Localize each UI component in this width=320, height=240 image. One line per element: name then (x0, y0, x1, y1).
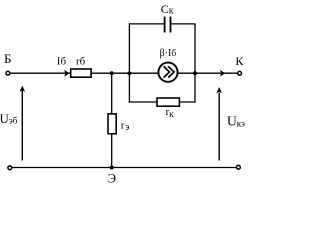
capacitor Cк right plate (170, 17, 172, 33)
terminal К (238, 71, 242, 75)
wire: rк loop left vertical (128, 73, 130, 102)
svg-text:β·Iб: β·Iб (160, 48, 177, 59)
terminal emitter left (8, 166, 12, 170)
svg-text:К: К (235, 54, 244, 68)
junction node at loop left on main wire (127, 71, 131, 75)
terminal Б (6, 71, 10, 75)
svg-text:Э: Э (108, 171, 116, 185)
svg-text:rб: rб (76, 55, 86, 67)
capacitor Cк left plate (164, 17, 166, 33)
junction node at loop right on main wire (193, 71, 197, 75)
arrow Uэб (up) (21, 90, 23, 161)
junction node Э on bottom rail (110, 166, 114, 170)
wire: Cк loop left vertical (128, 24, 130, 73)
arrow on collector wire (220, 70, 226, 77)
resistor rэ (108, 114, 116, 134)
terminal emitter right (237, 165, 241, 169)
svg-text:rэ: rэ (121, 120, 129, 134)
current source chevron 1 (164, 66, 170, 77)
wire: rк loop right vertical (194, 73, 196, 102)
arrow Uкэ (up) (218, 93, 220, 161)
resistor rк (157, 98, 179, 106)
current source chevron 2 (168, 66, 174, 77)
wire: bottom emitter rail (12, 167, 237, 169)
wire: base rail Б to collector node K (main horizontal) (10, 72, 238, 74)
wire: Cк loop top-right horizontal (171, 23, 196, 25)
wire: Cк loop right vertical (194, 24, 196, 73)
wire: rк loop bottom horizontal (129, 101, 196, 103)
junction node at rэ top (110, 71, 114, 75)
arrow Iб on base wire (64, 70, 70, 77)
svg-text:Б: Б (4, 51, 11, 66)
svg-text:Iб: Iб (57, 55, 67, 67)
wire: Cк loop top-left horizontal (129, 23, 164, 25)
current source β·Iб circle (158, 63, 177, 82)
resistor rб (71, 69, 91, 77)
wire: rэ branch vertical (111, 73, 113, 167)
